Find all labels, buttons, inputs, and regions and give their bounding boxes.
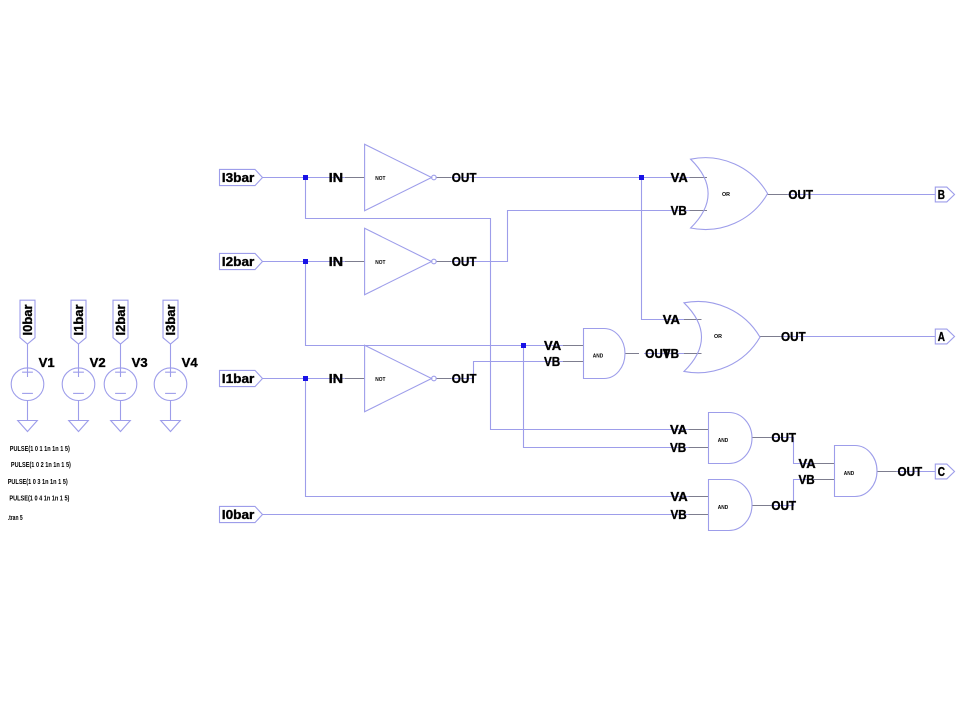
svg-text:V4: V4 xyxy=(182,355,199,370)
svg-text:AND: AND xyxy=(718,505,728,511)
svg-text:OR: OR xyxy=(714,334,722,340)
svg-text:V2: V2 xyxy=(90,355,106,370)
svg-text:VA: VA xyxy=(799,456,817,471)
svg-text:VB: VB xyxy=(671,203,687,218)
svg-text:I2bar: I2bar xyxy=(113,305,128,336)
svg-text:OUT: OUT xyxy=(771,498,796,513)
svg-text:OUT: OUT xyxy=(771,430,796,445)
svg-text:.tran 5: .tran 5 xyxy=(8,515,23,522)
svg-text:OUT: OUT xyxy=(452,170,477,185)
svg-text:I3bar: I3bar xyxy=(222,170,255,185)
svg-text:OUT: OUT xyxy=(452,254,477,269)
svg-text:OUT: OUT xyxy=(788,187,813,202)
svg-text:V3: V3 xyxy=(132,355,148,370)
svg-text:C: C xyxy=(938,464,946,479)
svg-text:VB: VB xyxy=(799,472,815,487)
svg-text:AND: AND xyxy=(844,471,854,477)
svg-text:PULSE(1 0 2 1n 1n 1 5): PULSE(1 0 2 1n 1n 1 5) xyxy=(11,462,71,469)
svg-text:PULSE(1 0 4 1n 1n 1 5): PULSE(1 0 4 1n 1n 1 5) xyxy=(9,496,69,503)
svg-text:VA: VA xyxy=(670,422,688,437)
svg-text:OUT: OUT xyxy=(781,329,806,344)
svg-text:OUT: OUT xyxy=(645,346,670,361)
svg-text:IN: IN xyxy=(329,254,344,269)
svg-text:VA: VA xyxy=(671,170,689,185)
svg-text:I1bar: I1bar xyxy=(71,305,86,336)
svg-text:AND: AND xyxy=(593,354,603,360)
svg-text:B: B xyxy=(938,187,945,202)
svg-text:VA: VA xyxy=(671,489,689,504)
svg-text:I0bar: I0bar xyxy=(222,507,255,522)
svg-text:OR: OR xyxy=(722,192,730,198)
svg-text:I1bar: I1bar xyxy=(222,371,255,386)
svg-text:VA: VA xyxy=(544,338,562,353)
svg-text:OUT: OUT xyxy=(452,371,477,386)
svg-text:VB: VB xyxy=(671,507,687,522)
svg-text:VA: VA xyxy=(663,312,681,327)
svg-text:I3bar: I3bar xyxy=(163,305,178,336)
svg-text:A: A xyxy=(938,329,946,344)
svg-text:VB: VB xyxy=(544,354,560,369)
svg-text:NOT: NOT xyxy=(375,260,386,266)
svg-text:PULSE(1 0 1 1n 1n 1 5): PULSE(1 0 1 1n 1n 1 5) xyxy=(10,446,70,453)
svg-text:I2bar: I2bar xyxy=(222,254,255,269)
svg-text:IN: IN xyxy=(329,371,344,386)
svg-text:AND: AND xyxy=(718,438,728,444)
svg-text:OUT: OUT xyxy=(898,464,923,479)
svg-text:I0bar: I0bar xyxy=(20,305,35,336)
svg-text:PULSE(1 0 3 1n 1n 1 5): PULSE(1 0 3 1n 1n 1 5) xyxy=(8,479,68,486)
svg-text:VB: VB xyxy=(670,440,686,455)
svg-text:IN: IN xyxy=(329,170,344,185)
svg-text:V1: V1 xyxy=(39,355,55,370)
svg-text:NOT: NOT xyxy=(375,377,386,383)
svg-text:NOT: NOT xyxy=(375,176,386,182)
